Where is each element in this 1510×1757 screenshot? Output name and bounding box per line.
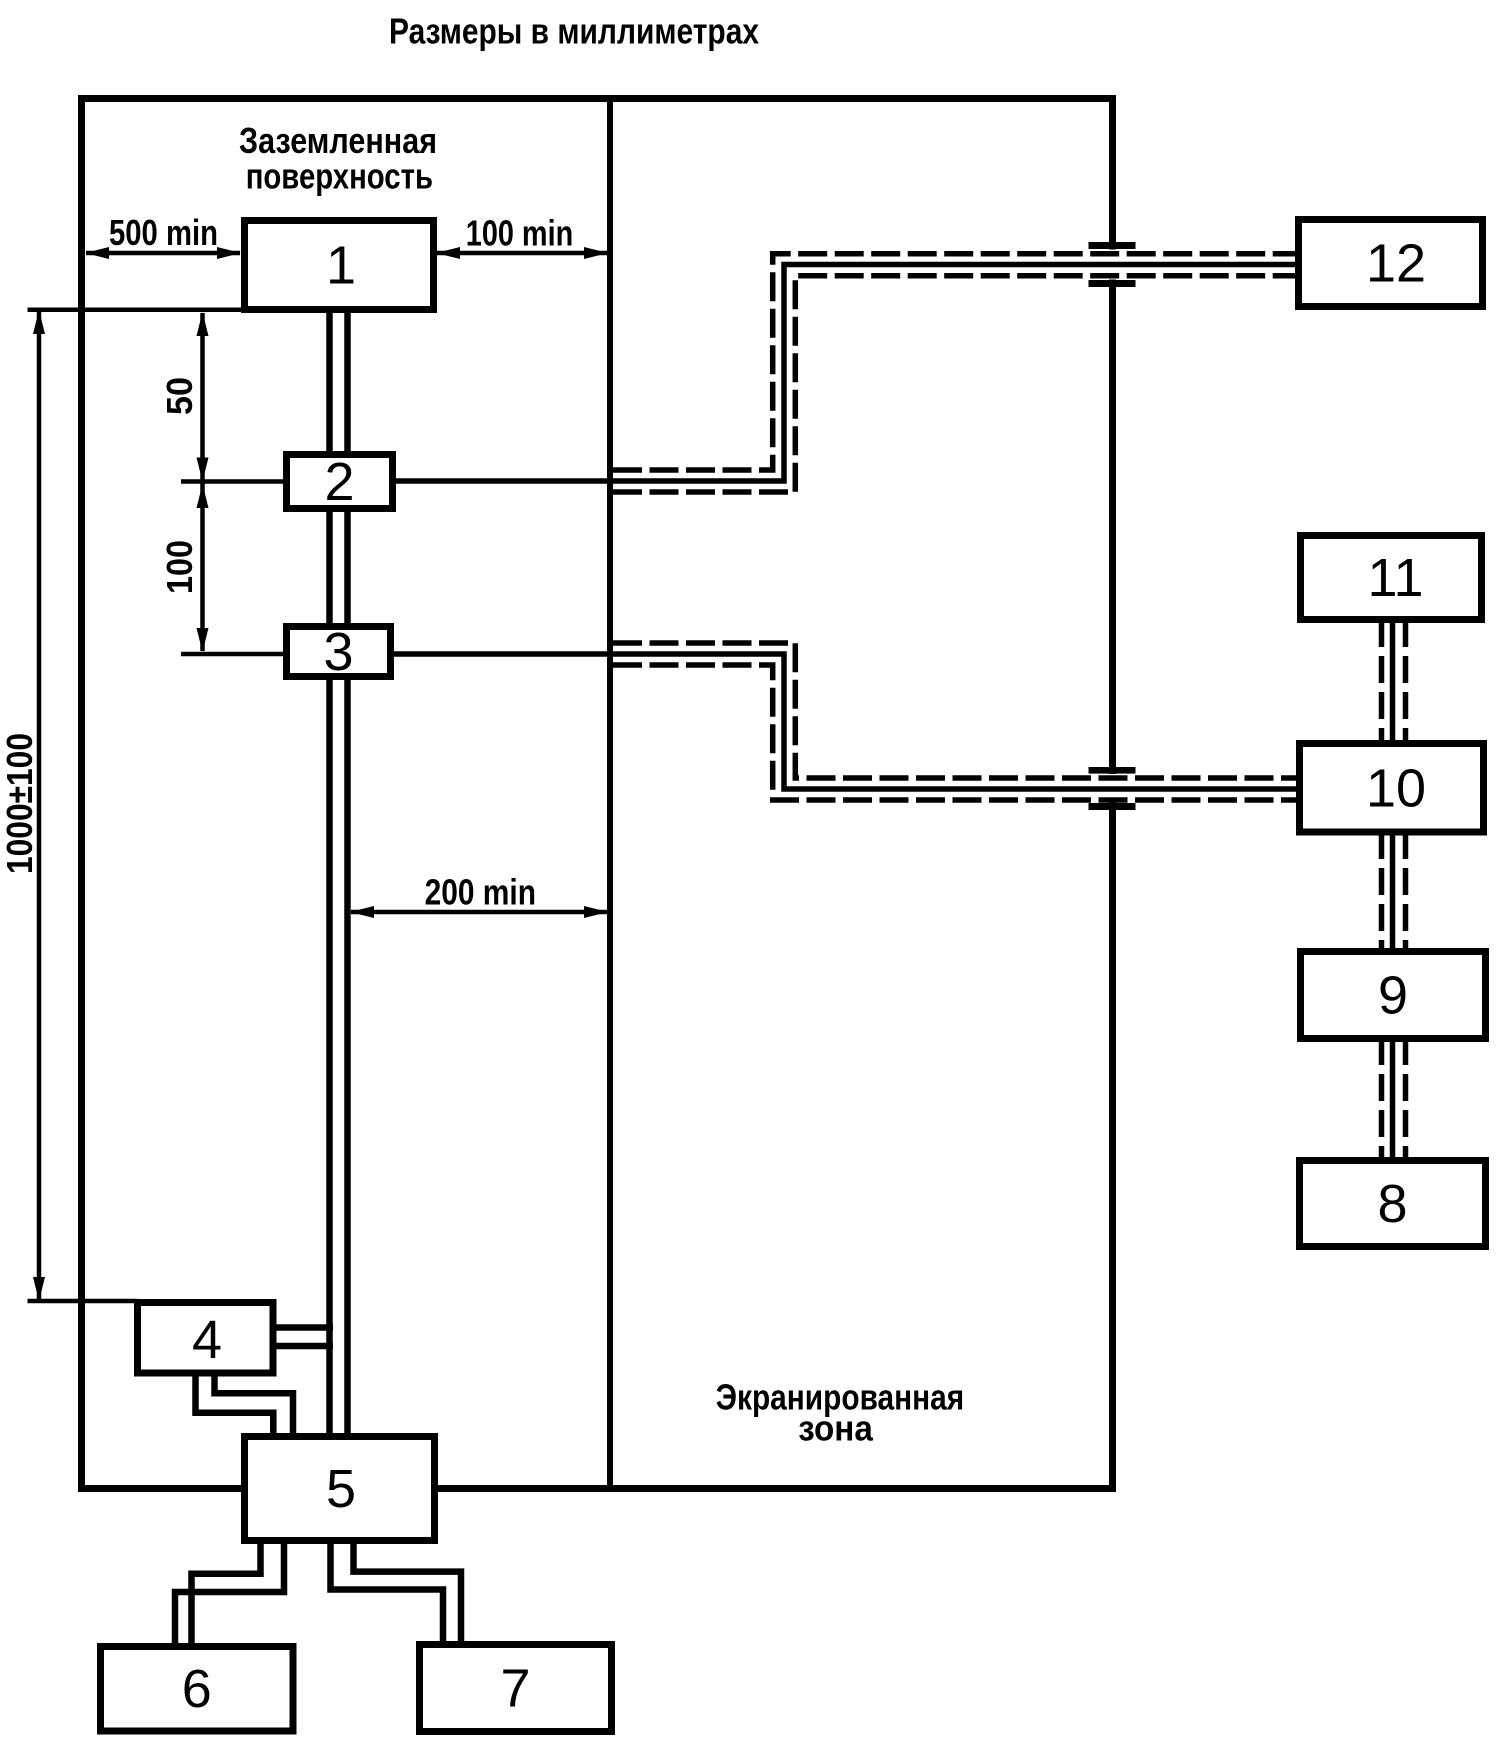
dimension 1000±100 line <box>33 310 45 1301</box>
svg-text:6: 6 <box>182 1659 212 1719</box>
shielded room outer wall <box>82 99 1113 1489</box>
wire pair box 5 to box 6 <box>175 1540 284 1646</box>
cable between box 11 and box 10 <box>1382 620 1406 744</box>
shielded cable from box 3 to box 10 dashed shield lower <box>613 665 1299 800</box>
box 5 <box>245 1437 435 1541</box>
svg-text:зона: зона <box>798 1408 873 1449</box>
svg-text:2: 2 <box>324 452 354 512</box>
wire pair box 5 to box 7 <box>331 1540 462 1644</box>
svg-text:12: 12 <box>1366 234 1426 294</box>
wire pair box 4 to box 5 <box>196 1372 294 1436</box>
dimension extension line at box 3 level <box>181 652 289 657</box>
svg-text:3: 3 <box>323 622 353 682</box>
box 11 <box>1301 536 1482 620</box>
svg-text:100 min: 100 min <box>466 213 573 254</box>
svg-text:50: 50 <box>159 377 200 415</box>
dimension extension line at floor level <box>28 307 246 312</box>
svg-text:7: 7 <box>500 1659 530 1719</box>
svg-text:8: 8 <box>1377 1174 1407 1234</box>
cable between box 10 and box 9 <box>1382 832 1406 955</box>
box 1 <box>245 221 434 310</box>
svg-text:10: 10 <box>1366 758 1426 818</box>
svg-text:5: 5 <box>326 1459 356 1519</box>
svg-text:200 min: 200 min <box>425 872 536 913</box>
box 10 <box>1300 744 1484 833</box>
dimension 50 and 100 line <box>197 312 209 652</box>
box 9 <box>1301 952 1486 1039</box>
stub wires from box 4 to conductor <box>273 1328 333 1347</box>
dimension extension line at box 4 top level <box>28 1299 138 1304</box>
vertical conductor pair from box 1 down to box 5 <box>330 310 348 1436</box>
box 8 <box>1300 1161 1486 1247</box>
svg-text:100: 100 <box>159 540 200 594</box>
shielded cable from box 3 to box 10 solid core <box>391 654 1299 789</box>
shielded cable from box 2 to box 12 dashed shield lower <box>613 276 1297 492</box>
feedthrough bars upper crossing <box>1089 242 1136 287</box>
svg-text:поверхность: поверхность <box>246 156 433 197</box>
cable between box 9 and box 8 <box>1382 1038 1406 1164</box>
dimension 500 min <box>85 247 241 259</box>
svg-text:1: 1 <box>326 236 356 296</box>
svg-text:500 min: 500 min <box>109 212 218 253</box>
svg-text:11: 11 <box>1367 548 1423 608</box>
wall divider between grounded surface zone and shielded zone <box>607 95 613 1492</box>
svg-text:4: 4 <box>192 1310 222 1370</box>
box 6 <box>101 1647 294 1732</box>
dimension 100 min <box>436 247 608 259</box>
svg-text:Размеры в миллиметрах: Размеры в миллиметрах <box>389 11 759 52</box>
box 4 <box>138 1303 274 1374</box>
gap in right wall for upper cable feedthrough <box>1104 250 1120 803</box>
svg-text:1000±100: 1000±100 <box>0 733 40 874</box>
dimension 200 min <box>350 906 608 918</box>
dimension extension line at box 2 level <box>181 479 289 484</box>
feedthrough bars lower crossing <box>1089 767 1136 810</box>
box 3 <box>287 627 391 677</box>
shielded cable from box 2 to box 12 dashed shield upper <box>613 254 1297 470</box>
svg-text:9: 9 <box>1378 966 1408 1026</box>
box 12 <box>1299 220 1483 307</box>
box 2 <box>287 455 393 509</box>
box 7 <box>420 1645 612 1732</box>
shielded cable from box 3 to box 10 dashed shield upper <box>613 643 1299 778</box>
shielded cable from box 2 to box 12 solid core <box>391 265 1297 482</box>
